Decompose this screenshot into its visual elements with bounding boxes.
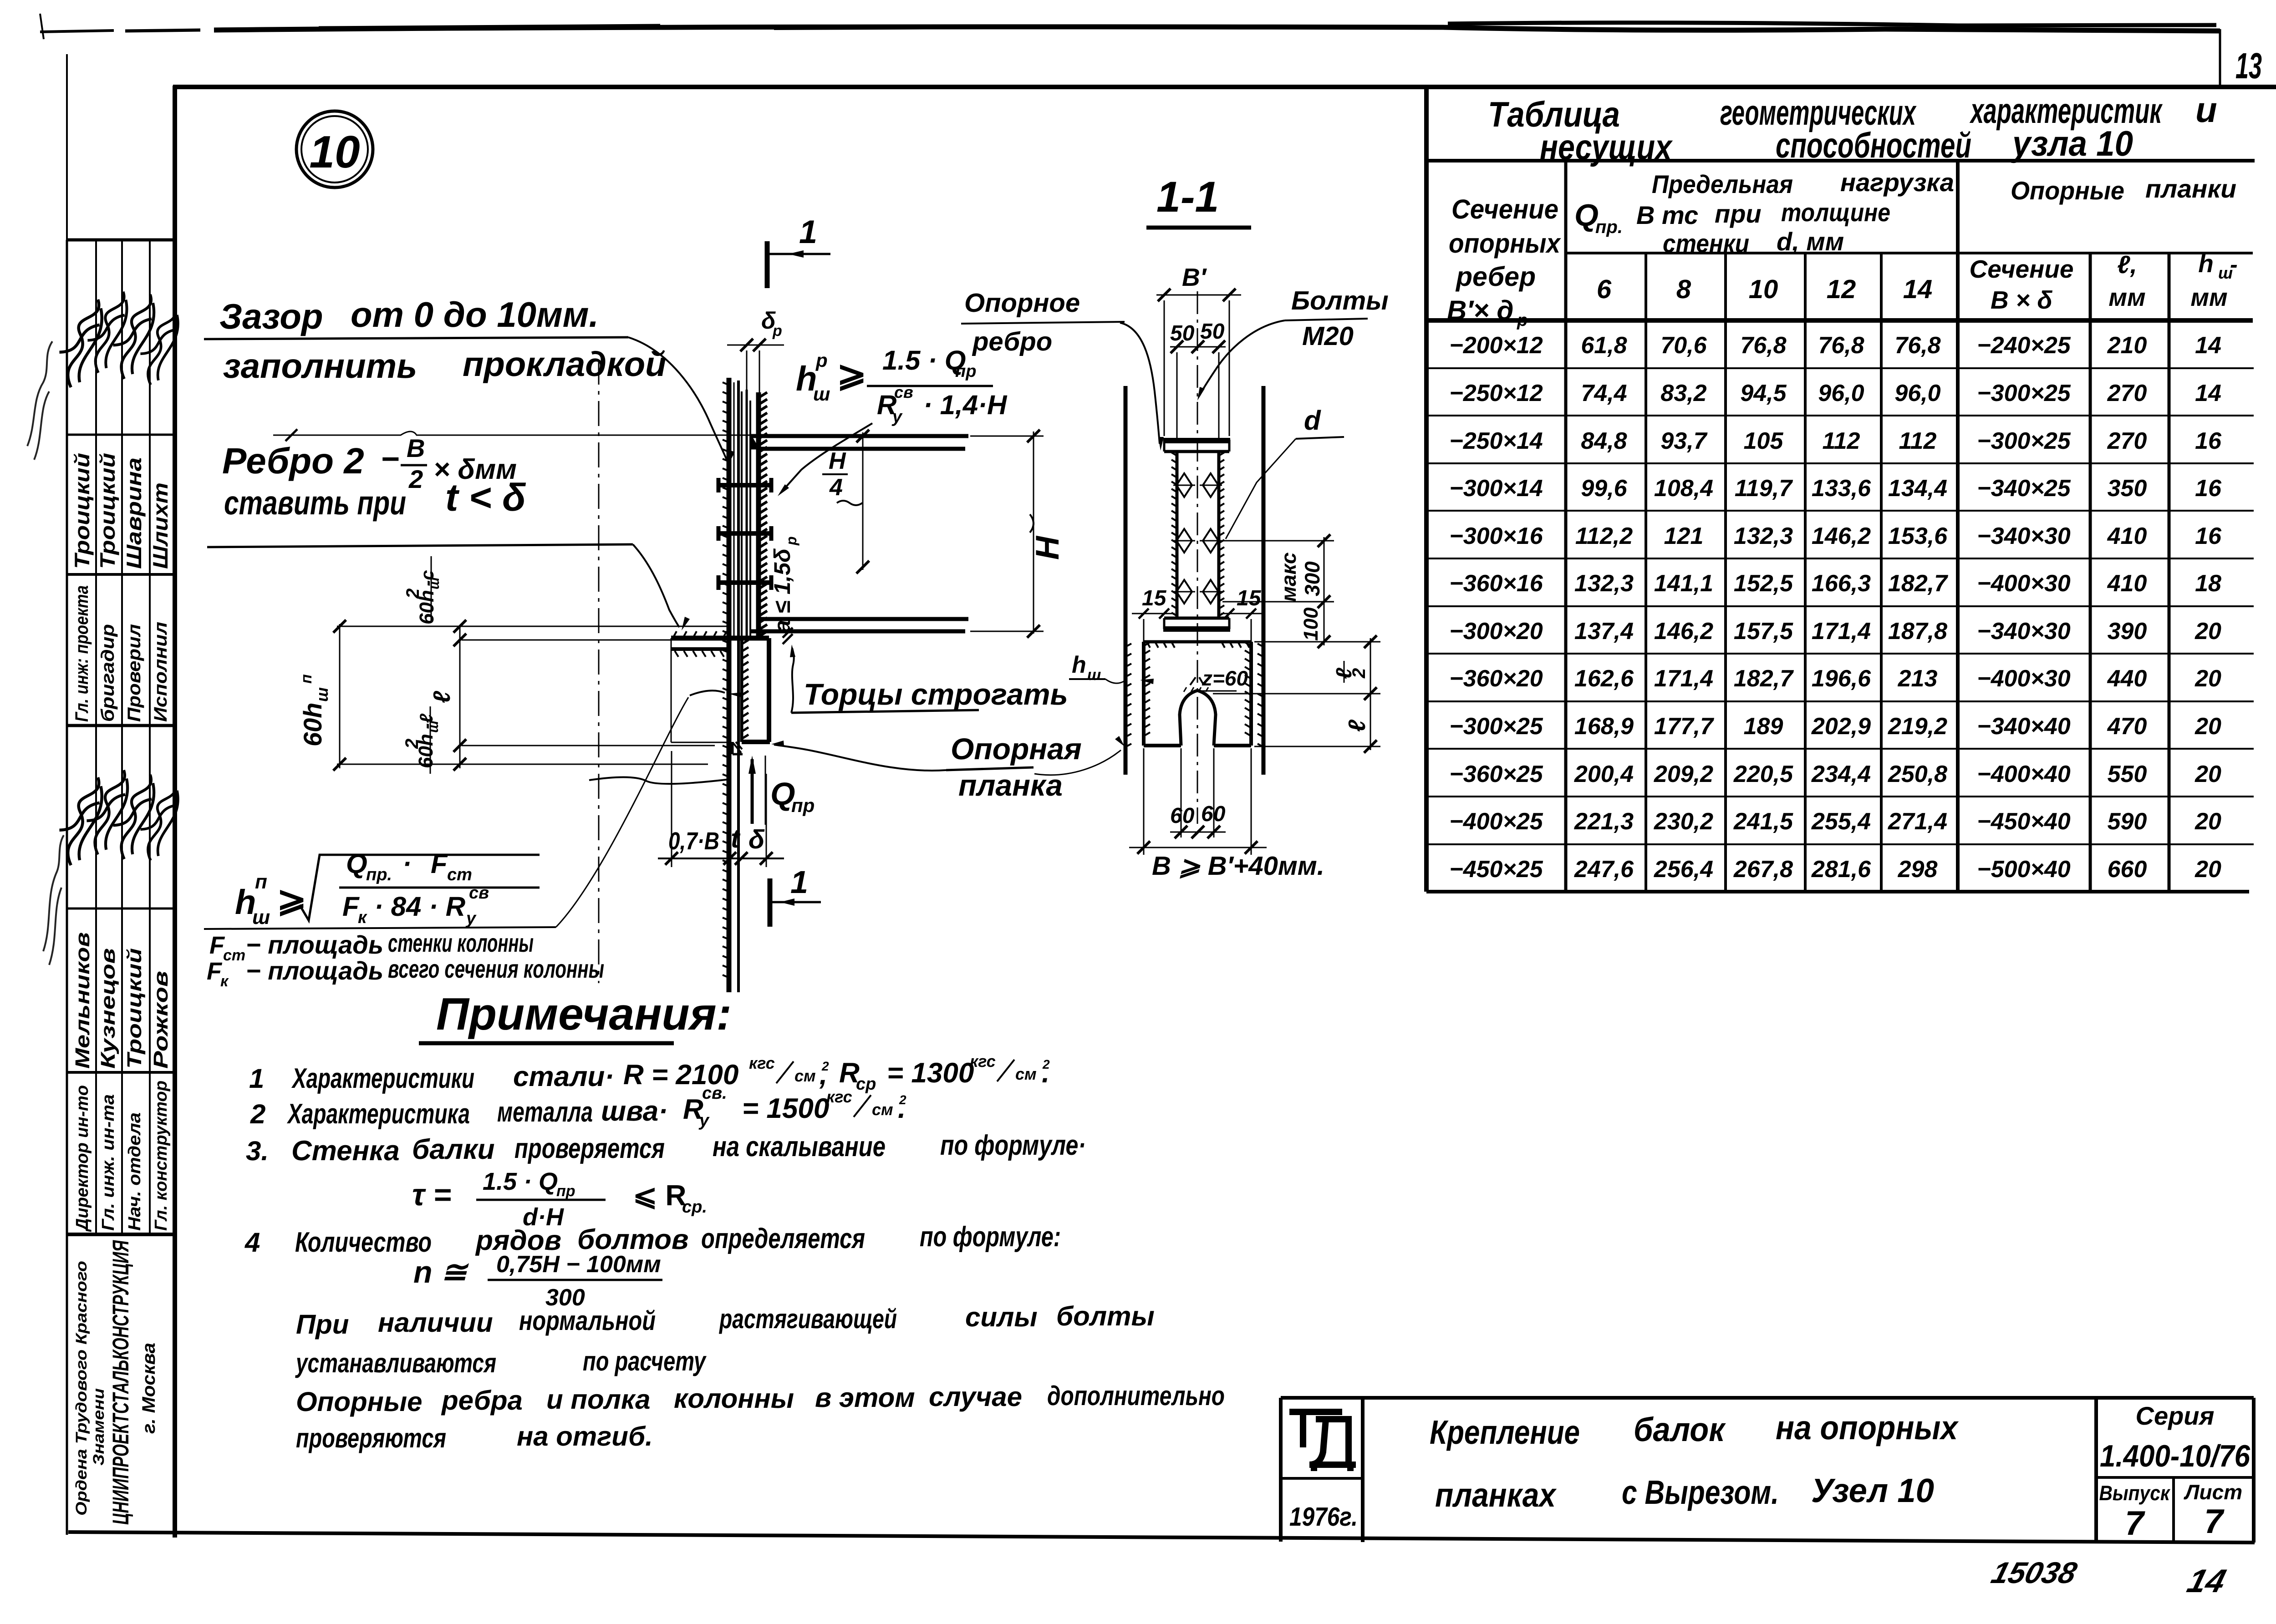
svg-text:колонны: колонны — [674, 1383, 794, 1414]
svg-text:14: 14 — [1903, 274, 1933, 304]
svg-text:на отгиб.: на отгиб. — [517, 1421, 653, 1451]
svg-text:300: 300 — [1300, 561, 1324, 596]
svg-text:h: h — [2198, 249, 2214, 278]
svg-text:132,3: 132,3 — [1734, 523, 1793, 549]
svg-text:20: 20 — [2195, 618, 2221, 645]
svg-text:·: · — [402, 848, 412, 879]
svg-text:76,8: 76,8 — [1740, 332, 1786, 359]
svg-text:108,4: 108,4 — [1654, 475, 1713, 502]
svg-text:В × δ: В × δ — [1991, 286, 2052, 314]
svg-text:и полка: и полка — [546, 1384, 650, 1415]
svg-text:проверяются: проверяются — [296, 1423, 446, 1453]
svg-text:Опорные: Опорные — [296, 1386, 422, 1417]
svg-text:210: 210 — [2107, 332, 2147, 359]
svg-text:ребро: ребро — [972, 327, 1052, 356]
svg-text:Троицкий: Троицкий — [70, 453, 94, 569]
svg-text:74,4: 74,4 — [1581, 380, 1627, 406]
svg-text:7: 7 — [2125, 1504, 2145, 1542]
svg-text:171,4: 171,4 — [1812, 618, 1871, 645]
svg-text:Q: Q — [1574, 198, 1599, 233]
svg-text:247,6: 247,6 — [1574, 856, 1634, 883]
svg-text:и: и — [2195, 90, 2217, 130]
svg-text:пр: пр — [791, 795, 815, 816]
svg-text:по расчету: по расчету — [583, 1346, 707, 1376]
svg-text:.: . — [1042, 1057, 1049, 1089]
svg-text:133,6: 133,6 — [1812, 475, 1871, 502]
svg-text:14: 14 — [2195, 332, 2221, 359]
svg-text:166,3: 166,3 — [1812, 570, 1871, 597]
svg-text:δ: δ — [748, 825, 765, 854]
svg-text:13: 13 — [2235, 46, 2262, 86]
svg-text:,: , — [819, 1059, 827, 1091]
svg-text:93,7: 93,7 — [1660, 428, 1707, 454]
svg-text:проверяется: проверяется — [514, 1133, 665, 1164]
svg-text:d: d — [1304, 405, 1321, 436]
svg-text:ш: ш — [813, 383, 830, 405]
svg-text:550: 550 — [2108, 761, 2147, 787]
svg-text:В ⩾ В′+40мм.: В ⩾ В′+40мм. — [1152, 851, 1324, 881]
svg-text:2: 2 — [402, 739, 422, 749]
svg-text:М20: М20 — [1302, 321, 1354, 351]
svg-text:планки: планки — [2145, 174, 2236, 203]
svg-text:20: 20 — [2195, 713, 2221, 740]
svg-text:наличии: наличии — [378, 1307, 493, 1338]
svg-text:2: 2 — [250, 1099, 265, 1129]
svg-text:Нач. отдела: Нач. отдела — [125, 1112, 144, 1231]
svg-text:⩽ R: ⩽ R — [633, 1179, 687, 1212]
svg-text:ребра: ребра — [441, 1385, 523, 1416]
svg-text:р: р — [815, 350, 828, 371]
svg-text:стенки: стенки — [1663, 229, 1749, 258]
svg-text:В тс: В тс — [1636, 201, 1698, 229]
svg-text:Шлихт: Шлихт — [148, 482, 172, 569]
svg-text:4: 4 — [244, 1227, 260, 1258]
svg-text:146,2: 146,2 — [1654, 618, 1713, 645]
svg-text:прокладкой: прокладкой — [463, 345, 667, 384]
svg-text:−250×12: −250×12 — [1449, 380, 1543, 406]
svg-text:ребер: ребер — [1455, 261, 1536, 292]
svg-text:Троицкий: Троицкий — [123, 948, 146, 1069]
svg-text:Узел 10: Узел 10 — [1811, 1472, 1934, 1509]
svg-text:112,2: 112,2 — [1575, 523, 1633, 549]
svg-text:Сечение: Сечение — [1970, 255, 2074, 283]
svg-text:бригадир: бригадир — [98, 624, 118, 722]
svg-text:16: 16 — [2195, 523, 2222, 549]
svg-text:балок: балок — [1634, 1411, 1726, 1448]
svg-text:Ордена Трудового Красного: Ордена Трудового Красного — [73, 1261, 90, 1516]
svg-text:на опорных: на опорных — [1776, 1409, 1959, 1446]
svg-text:470: 470 — [2107, 713, 2147, 740]
svg-text:заполнить: заполнить — [223, 347, 417, 386]
svg-text:кгс: кгс — [970, 1052, 996, 1071]
svg-text:1: 1 — [799, 214, 817, 250]
svg-text:162,6: 162,6 — [1574, 665, 1634, 692]
svg-text:270: 270 — [2107, 380, 2147, 406]
svg-text:Н: Н — [829, 448, 846, 474]
svg-text:−360×16: −360×16 — [1449, 570, 1543, 597]
svg-text:опорных: опорных — [1449, 228, 1561, 259]
svg-text:· 84 · R: · 84 · R — [374, 891, 465, 922]
svg-text:n ≅: n ≅ — [413, 1255, 469, 1289]
svg-text:пр: пр — [556, 1182, 575, 1200]
svg-text:− площадь: − площадь — [246, 956, 383, 985]
svg-text:с Вырезом.: с Вырезом. — [1622, 1473, 1779, 1511]
svg-text:−300×25: −300×25 — [1977, 380, 2071, 406]
svg-text:2: 2 — [1349, 668, 1369, 679]
svg-text:153,6: 153,6 — [1888, 523, 1948, 549]
svg-text:61,8: 61,8 — [1581, 332, 1627, 359]
svg-text:⩾: ⩾ — [277, 879, 306, 919]
svg-text:ш: ш — [313, 687, 331, 702]
svg-text:у: у — [698, 1111, 710, 1130]
svg-text:100: 100 — [1300, 607, 1322, 641]
svg-text:стали·: стали· — [513, 1061, 614, 1092]
svg-text:196,6: 196,6 — [1812, 665, 1871, 692]
svg-text:112: 112 — [1823, 428, 1860, 454]
svg-text:Стенка: Стенка — [291, 1135, 400, 1167]
svg-text:р: р — [783, 536, 799, 546]
svg-text:20: 20 — [2195, 808, 2221, 835]
svg-text:2: 2 — [403, 589, 423, 599]
svg-text:18: 18 — [2195, 570, 2221, 597]
svg-text:стенки колонны: стенки колонны — [388, 929, 534, 957]
svg-text:1.5 · Q: 1.5 · Q — [882, 345, 966, 376]
svg-text:94,5: 94,5 — [1740, 380, 1787, 406]
svg-text:209,2: 209,2 — [1654, 761, 1713, 787]
svg-text:350: 350 — [2108, 475, 2147, 502]
svg-text:Рожков: Рожков — [150, 971, 172, 1069]
svg-text:−300×25: −300×25 — [1977, 428, 2071, 454]
svg-text:255,4: 255,4 — [1811, 808, 1871, 835]
svg-text:1.400-10/76: 1.400-10/76 — [2100, 1439, 2251, 1473]
svg-text:Знамени: Знамени — [90, 1388, 107, 1466]
svg-text:10: 10 — [1749, 274, 1778, 304]
svg-text:270: 270 — [2107, 428, 2147, 454]
svg-text:пр.: пр. — [1595, 217, 1623, 237]
svg-text:298: 298 — [1898, 856, 1938, 883]
svg-text:590: 590 — [2108, 808, 2147, 835]
svg-text:Сечение: Сечение — [1451, 194, 1558, 224]
svg-text:Директор ин-тo: Директор ин-тo — [73, 1085, 92, 1232]
svg-text:16: 16 — [2195, 428, 2222, 454]
svg-text:410: 410 — [2107, 523, 2147, 549]
svg-text:по формуле:: по формуле: — [920, 1221, 1061, 1253]
svg-text:F: F — [342, 891, 360, 922]
svg-text:от 0 до 10мм.: от 0 до 10мм. — [351, 294, 599, 335]
svg-text:мм: мм — [2108, 283, 2145, 311]
svg-text:см: см — [794, 1066, 816, 1085]
svg-text:241,5: 241,5 — [1733, 808, 1793, 835]
svg-text:болтов: болтов — [577, 1224, 688, 1255]
svg-text:15: 15 — [1237, 586, 1262, 610]
svg-text:−360×20: −360×20 — [1449, 665, 1543, 692]
svg-text:168,9: 168,9 — [1574, 713, 1634, 740]
svg-text:силы: силы — [965, 1302, 1038, 1332]
svg-text:Характеристики: Характеристики — [291, 1063, 474, 1094]
svg-text:болты: болты — [1056, 1301, 1155, 1331]
svg-text:132,3: 132,3 — [1574, 570, 1634, 597]
svg-text:70,6: 70,6 — [1660, 332, 1707, 359]
svg-text:−300×16: −300×16 — [1449, 523, 1543, 549]
svg-text:1: 1 — [249, 1063, 264, 1094]
svg-text:−300×14: −300×14 — [1449, 475, 1543, 502]
svg-text:В′: В′ — [1182, 263, 1207, 291]
svg-text:Ребро 2: Ребро 2 — [222, 441, 364, 481]
svg-text:12: 12 — [1827, 274, 1856, 304]
svg-text:0,7·В: 0,7·В — [668, 827, 719, 855]
svg-text:219,2: 219,2 — [1888, 713, 1947, 740]
svg-text:10: 10 — [309, 127, 360, 178]
svg-text:= 1300: = 1300 — [887, 1057, 974, 1089]
svg-text:Проверил: Проверил — [124, 624, 144, 722]
svg-text:−400×25: −400×25 — [1449, 808, 1543, 835]
svg-text:Серия: Серия — [2136, 1401, 2215, 1430]
svg-text:−200×12: −200×12 — [1449, 332, 1543, 359]
svg-text:Характеристика: Характеристика — [287, 1098, 470, 1130]
svg-text:440: 440 — [2107, 665, 2147, 692]
svg-text:96,0: 96,0 — [1818, 380, 1864, 406]
svg-text:234,4: 234,4 — [1811, 761, 1871, 787]
svg-text:Крепление: Крепление — [1430, 1413, 1580, 1451]
svg-text:ℓ: ℓ — [429, 690, 455, 703]
svg-text:390: 390 — [2108, 618, 2147, 645]
svg-text:15038: 15038 — [1988, 1556, 2081, 1589]
svg-text:толщине: толщине — [1781, 198, 1890, 227]
svg-text:60h: 60h — [298, 703, 327, 747]
svg-text:221,3: 221,3 — [1574, 808, 1634, 835]
svg-text:нагрузка: нагрузка — [1840, 168, 1954, 197]
svg-text:всего сечения колонны: всего сечения колонны — [388, 954, 604, 983]
svg-text:267,8: 267,8 — [1733, 856, 1793, 883]
svg-text:250,8: 250,8 — [1888, 761, 1947, 787]
svg-text:200,4: 200,4 — [1574, 761, 1634, 787]
svg-text:пр: пр — [955, 362, 976, 381]
svg-text:устанавливаются: устанавливаются — [295, 1348, 496, 1378]
svg-text:способностей: способностей — [1776, 125, 1971, 165]
svg-text:у: у — [465, 909, 477, 928]
svg-text:Шаврина: Шаврина — [122, 457, 146, 569]
svg-text:п: п — [255, 871, 267, 893]
svg-text:τ =: τ = — [412, 1177, 451, 1212]
svg-text:1: 1 — [790, 864, 808, 900]
svg-text:−500×40: −500×40 — [1977, 856, 2070, 883]
svg-text:по формуле·: по формуле· — [940, 1130, 1086, 1161]
svg-text:−340×40: −340×40 — [1977, 713, 2070, 740]
svg-text:ℓ: ℓ — [1344, 719, 1370, 732]
svg-text:1-1: 1-1 — [1156, 173, 1219, 221]
svg-text:−340×30: −340×30 — [1977, 618, 2070, 645]
svg-text:При: При — [296, 1309, 349, 1340]
svg-text:св.: св. — [702, 1084, 727, 1103]
svg-text:20: 20 — [2195, 761, 2221, 787]
svg-text:6: 6 — [1597, 274, 1612, 304]
svg-text:−300×20: −300×20 — [1449, 618, 1543, 645]
svg-text:в этом: в этом — [815, 1382, 915, 1413]
svg-text:Торцы строгать: Торцы строгать — [804, 677, 1068, 711]
svg-text:р: р — [772, 322, 782, 340]
svg-text:− площадь: − площадь — [246, 930, 383, 959]
svg-text:60: 60 — [1201, 802, 1226, 826]
svg-text:металла: металла — [497, 1096, 593, 1128]
svg-text:16: 16 — [2195, 475, 2222, 502]
svg-text:281,6: 281,6 — [1811, 856, 1871, 883]
svg-text:−: − — [381, 441, 399, 477]
svg-text:271,4: 271,4 — [1888, 808, 1947, 835]
svg-text:−450×40: −450×40 — [1977, 808, 2070, 835]
svg-text:Н: Н — [1029, 535, 1066, 560]
svg-text:410: 410 — [2107, 570, 2147, 597]
svg-text:z=60: z=60 — [1202, 666, 1248, 690]
svg-text:шва·: шва· — [601, 1096, 668, 1127]
svg-text:137,4: 137,4 — [1574, 618, 1634, 645]
svg-text:50: 50 — [1200, 320, 1225, 344]
svg-text:2: 2 — [408, 465, 423, 493]
svg-text:8: 8 — [1676, 274, 1691, 304]
svg-text:балки: балки — [412, 1134, 495, 1165]
svg-text:660: 660 — [2108, 856, 2147, 883]
svg-text:−240×25: −240×25 — [1977, 332, 2071, 359]
svg-text:220,5: 220,5 — [1733, 761, 1793, 787]
svg-text:Гл. инж. ин-та: Гл. инж. ин-та — [99, 1094, 118, 1231]
svg-text:ш: ш — [1087, 666, 1101, 684]
svg-text:189: 189 — [1744, 713, 1783, 740]
svg-text:4: 4 — [829, 474, 843, 501]
svg-text:141,1: 141,1 — [1654, 570, 1713, 597]
svg-text:76,8: 76,8 — [1818, 332, 1864, 359]
svg-text:182,7: 182,7 — [1888, 570, 1948, 597]
svg-text:t < δ: t < δ — [445, 476, 526, 519]
svg-text:t: t — [731, 824, 741, 853]
svg-text:187,8: 187,8 — [1888, 618, 1947, 645]
svg-text:ш: ш — [252, 906, 270, 929]
svg-text:202,9: 202,9 — [1811, 713, 1871, 740]
svg-text:макс: макс — [1277, 552, 1300, 602]
svg-text:см: см — [1015, 1065, 1037, 1083]
svg-text:213: 213 — [1898, 665, 1938, 692]
svg-text:Опорное: Опорное — [964, 288, 1080, 318]
svg-text:на скалывание: на скалывание — [713, 1131, 886, 1162]
svg-text:1976г.: 1976г. — [1289, 1502, 1358, 1532]
svg-text:при: при — [1715, 199, 1762, 228]
svg-text:планка: планка — [958, 768, 1063, 802]
svg-text:121: 121 — [1664, 523, 1704, 549]
svg-text:Опорные: Опорные — [2011, 176, 2124, 205]
svg-text:99,6: 99,6 — [1581, 475, 1627, 502]
svg-text:96,0: 96,0 — [1894, 380, 1940, 406]
svg-text:−340×25: −340×25 — [1977, 475, 2071, 502]
svg-text:1.5 · Q: 1.5 · Q — [483, 1168, 558, 1195]
svg-text:-c: -c — [418, 570, 438, 586]
svg-text:ср: ср — [856, 1075, 876, 1094]
svg-text:−300×25: −300×25 — [1449, 713, 1543, 740]
svg-text:мм: мм — [2190, 283, 2227, 311]
svg-text:256,4: 256,4 — [1654, 856, 1713, 883]
svg-text:177,7: 177,7 — [1654, 713, 1714, 740]
svg-text:у: у — [891, 407, 903, 426]
svg-text:152,5: 152,5 — [1734, 570, 1793, 597]
svg-text:Опорная: Опорная — [951, 732, 1082, 766]
svg-text:⩾: ⩾ — [837, 354, 866, 394]
svg-text:0,75Н − 100мм: 0,75Н − 100мм — [496, 1251, 661, 1278]
svg-text:112: 112 — [1899, 428, 1937, 454]
svg-text:Исполнил: Исполнил — [151, 622, 171, 722]
svg-text:ст: ст — [447, 865, 472, 884]
svg-text:Предельная: Предельная — [1652, 170, 1793, 198]
svg-text:h: h — [1072, 652, 1086, 678]
svg-text:р: р — [1517, 311, 1528, 330]
svg-text:15: 15 — [1142, 586, 1167, 610]
svg-text:−360×25: −360×25 — [1449, 761, 1543, 787]
svg-text:Мельников: Мельников — [71, 932, 94, 1069]
svg-text:В′× д: В′× д — [1447, 295, 1514, 325]
svg-text:3.: 3. — [246, 1136, 269, 1166]
svg-text:Q: Q — [346, 848, 367, 879]
svg-text:171,4: 171,4 — [1654, 665, 1713, 692]
svg-text:−340×30: −340×30 — [1977, 523, 2070, 549]
svg-text:−450×25: −450×25 — [1449, 856, 1543, 883]
svg-text:Гл. конструктор: Гл. конструктор — [152, 1081, 171, 1231]
svg-text:60: 60 — [1170, 804, 1195, 828]
svg-text:ст: ст — [223, 947, 245, 964]
svg-text:случае: случае — [929, 1381, 1022, 1412]
svg-text:ℓ,: ℓ, — [2117, 250, 2137, 279]
svg-text:дополнительно: дополнительно — [1047, 1380, 1225, 1411]
svg-text:7: 7 — [2204, 1502, 2225, 1540]
svg-text:d, мм: d, мм — [1777, 227, 1844, 256]
svg-text:кгс: кгс — [749, 1054, 775, 1072]
svg-text:Количество: Количество — [295, 1227, 432, 1258]
svg-text:14: 14 — [2195, 380, 2221, 406]
svg-text:-: - — [2230, 252, 2238, 277]
svg-text:Примечания:: Примечания: — [436, 989, 732, 1040]
svg-text:растягивающей: растягивающей — [718, 1304, 897, 1334]
svg-text:г. Москва: г. Москва — [139, 1343, 159, 1434]
svg-text:Гл. инж: проекта: Гл. инж: проекта — [72, 585, 92, 722]
svg-text:.: . — [898, 1093, 906, 1124]
svg-text:= 1500: = 1500 — [742, 1093, 829, 1124]
svg-text:пр.: пр. — [366, 865, 392, 884]
svg-text:Троицкий: Троицкий — [96, 453, 119, 569]
svg-text:Лист: Лист — [2184, 1480, 2242, 1504]
svg-text:· 1,4·Н: · 1,4·Н — [923, 390, 1008, 420]
svg-text:20: 20 — [2195, 665, 2221, 692]
svg-text:182,7: 182,7 — [1734, 665, 1794, 692]
svg-text:узла 10: узла 10 — [2011, 123, 2133, 163]
svg-text:Выпуск: Выпуск — [2099, 1481, 2171, 1505]
svg-text:ср.: ср. — [682, 1198, 707, 1217]
svg-text:ЦНИИПРОЕКТСТАЛЬКОНСТРУКЦИЯ: ЦНИИПРОЕКТСТАЛЬКОНСТРУКЦИЯ — [108, 1240, 133, 1525]
svg-text:157,5: 157,5 — [1734, 618, 1793, 645]
svg-text:к: к — [220, 973, 229, 990]
svg-text:кгс: кгс — [826, 1087, 852, 1106]
svg-text:105: 105 — [1744, 428, 1784, 454]
svg-text:Зазор: Зазор — [219, 296, 323, 336]
svg-text:планках: планках — [1435, 1476, 1557, 1514]
svg-text:св: св — [469, 883, 489, 903]
svg-text:−400×30: −400×30 — [1977, 665, 2070, 692]
svg-text:несущих: несущих — [1540, 127, 1673, 167]
svg-text:определяется: определяется — [701, 1223, 865, 1254]
svg-text:В: В — [407, 434, 425, 462]
svg-text:Кузнецов: Кузнецов — [97, 948, 119, 1069]
svg-text:146,2: 146,2 — [1812, 523, 1871, 549]
svg-text:F: F — [431, 848, 448, 879]
svg-text:п: п — [298, 674, 315, 684]
svg-text:ставить при: ставить при — [224, 484, 406, 522]
svg-text:св: св — [894, 383, 913, 401]
svg-text:76,8: 76,8 — [1894, 332, 1940, 359]
svg-text:20: 20 — [2195, 856, 2221, 883]
